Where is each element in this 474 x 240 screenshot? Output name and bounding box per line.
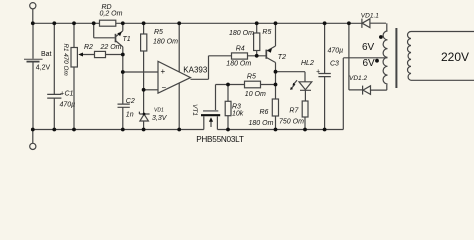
svg-text:−: −	[162, 83, 167, 92]
svg-text:R5: R5	[154, 29, 163, 36]
svg-text:HL2: HL2	[301, 60, 314, 67]
svg-text:T1: T1	[123, 36, 131, 43]
svg-text:470µ: 470µ	[60, 102, 76, 109]
svg-text:6V: 6V	[362, 42, 375, 53]
svg-text:C3: C3	[330, 61, 339, 68]
svg-text:470µ: 470µ	[328, 48, 344, 55]
svg-text:0,2 Om: 0,2 Om	[100, 11, 123, 18]
svg-text:R2: R2	[84, 44, 93, 51]
svg-text:10k: 10k	[232, 111, 244, 118]
svg-text:750 Om: 750 Om	[279, 119, 304, 126]
svg-text:VD1: VD1	[154, 108, 164, 114]
svg-text:PHB55N03LT: PHB55N03LT	[196, 135, 244, 144]
svg-text:VT1: VT1	[191, 104, 198, 116]
svg-text:+: +	[316, 69, 320, 76]
svg-text:4,2V: 4,2V	[36, 65, 51, 72]
svg-text:1n: 1n	[126, 112, 134, 119]
svg-text:VD1.2: VD1.2	[349, 75, 367, 82]
svg-text:VD1.1: VD1.1	[361, 13, 379, 20]
svg-text:180 Om: 180 Om	[229, 30, 254, 37]
svg-text:R7: R7	[289, 108, 299, 115]
svg-text:180 Om: 180 Om	[249, 120, 274, 127]
svg-text:R3: R3	[232, 104, 241, 111]
svg-text:+: +	[60, 91, 64, 98]
svg-text:R1 470 Om: R1 470 Om	[62, 44, 69, 76]
svg-text:R6: R6	[260, 109, 269, 116]
svg-text:22 Om: 22 Om	[100, 44, 122, 51]
svg-text:KA393: KA393	[183, 66, 208, 75]
svg-text:6V: 6V	[363, 58, 376, 69]
svg-text:+: +	[161, 67, 166, 76]
svg-text:C2: C2	[126, 98, 135, 105]
svg-text:3,3V: 3,3V	[152, 115, 168, 122]
svg-text:T2: T2	[278, 54, 286, 61]
svg-text:R4: R4	[236, 46, 245, 53]
svg-text:220V: 220V	[441, 50, 469, 64]
svg-text:180 Om: 180 Om	[226, 61, 251, 68]
svg-text:R5: R5	[247, 74, 256, 81]
svg-text:10 Om: 10 Om	[245, 91, 266, 98]
svg-text:180 Om: 180 Om	[153, 39, 178, 46]
svg-text:R5: R5	[262, 29, 271, 36]
svg-text:Bat: Bat	[41, 51, 52, 58]
svg-text:C1: C1	[65, 91, 74, 98]
